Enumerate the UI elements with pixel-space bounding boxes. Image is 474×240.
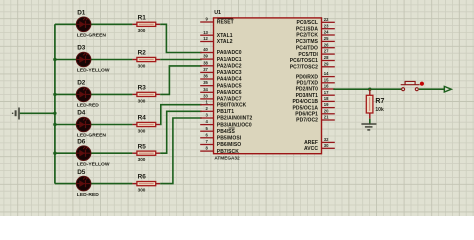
svg-text:PD5/OC1A: PD5/OC1A <box>293 105 319 111</box>
pin 33 (PA7/ADC7) <box>200 94 242 103</box>
pin 14 (PD0/RXD) <box>296 71 335 80</box>
svg-text:23: 23 <box>324 23 329 28</box>
svg-text:300: 300 <box>138 157 146 162</box>
pin 4 (PB3/AIN1/OC0) <box>200 119 252 128</box>
pin 6 (PB5/MOSI) <box>200 132 242 141</box>
svg-text:PB1/T1: PB1/T1 <box>217 109 234 115</box>
svg-text:PB5/MOSI: PB5/MOSI <box>217 136 242 142</box>
wire: R1 to chip pin <box>156 23 161 25</box>
svg-text:21: 21 <box>324 115 329 120</box>
svg-text:LED-GREEN: LED-GREEN <box>77 33 107 39</box>
wire: R7 to ground <box>369 119 371 124</box>
pin 2 (PB1/T1) <box>200 106 234 115</box>
svg-text:300: 300 <box>138 28 146 33</box>
svg-text:LED-YELLOW: LED-YELLOW <box>77 161 110 167</box>
svg-text:PA6/ADC6: PA6/ADC6 <box>217 90 242 96</box>
pin 36 (PA4/ADC4) <box>200 74 242 83</box>
svg-text:D2: D2 <box>77 80 86 87</box>
svg-text:17: 17 <box>324 90 329 95</box>
svg-text:24: 24 <box>324 30 329 35</box>
svg-text:39: 39 <box>203 54 208 59</box>
pin 39 (PA1/ADC1) <box>200 54 242 63</box>
pin 20 (PD6/ICP1) <box>295 108 335 117</box>
svg-text:PD6/ICP1: PD6/ICP1 <box>295 112 318 118</box>
svg-text:ATMEGA32: ATMEGA32 <box>214 156 240 161</box>
wire: bus to D6 anode <box>55 152 77 154</box>
wire: D3 cathode to R2 <box>90 59 132 61</box>
wire: bus to D4 anode <box>55 124 77 126</box>
pin 17 (PD3/INT1) <box>296 90 335 99</box>
wire: bus to D5 anode <box>55 183 77 185</box>
svg-text:PB0/T0/XCK: PB0/T0/XCK <box>217 102 247 108</box>
svg-text:D5: D5 <box>77 169 86 176</box>
pin 30 (AVCC) <box>304 143 335 152</box>
pin 37 (PA3/ADC3) <box>200 67 242 76</box>
svg-text:PA3/ADC3: PA3/ADC3 <box>217 70 242 76</box>
pin 32 (AREF) <box>304 137 335 146</box>
pin 34 (PA6/ADC6) <box>200 87 242 96</box>
wire: battery to bus <box>20 112 55 114</box>
svg-text:PD4/OC1B: PD4/OC1B <box>293 99 319 105</box>
svg-text:40: 40 <box>203 47 208 52</box>
svg-text:R2: R2 <box>138 50 147 57</box>
pin 40 (PA0/ADC0) <box>200 47 242 56</box>
svg-text:R4: R4 <box>138 115 147 122</box>
svg-text:RESET: RESET <box>217 20 234 26</box>
svg-text:32: 32 <box>324 137 329 142</box>
pin 7 (PB6/MISO) <box>200 139 241 148</box>
svg-text:27: 27 <box>324 49 329 54</box>
LED D2 <box>76 87 91 102</box>
resistor R1 (300) <box>137 22 156 26</box>
resistor R3 (300) <box>137 92 156 96</box>
svg-text:PC4/TDO: PC4/TDO <box>296 45 318 51</box>
wire: D4 cathode to R4 <box>90 124 132 126</box>
svg-text:PB6/MISO: PB6/MISO <box>217 142 241 148</box>
pin 21 (PD7/OC2) <box>296 115 335 124</box>
LED D1 <box>76 17 91 32</box>
svg-text:28: 28 <box>324 55 329 60</box>
svg-text:R3: R3 <box>138 85 147 92</box>
pin 26 (PC4/TDO) <box>296 42 335 51</box>
junction at R7 branch <box>368 88 371 91</box>
resistor R6 (300) <box>137 182 156 186</box>
wire: D5 cathode to R6 <box>90 183 132 185</box>
LED D4 <box>76 117 91 132</box>
svg-text:LED-RED: LED-RED <box>77 192 99 198</box>
svg-text:300: 300 <box>138 128 146 133</box>
pin 5 (PB4/SS) <box>200 126 235 135</box>
pin 9 (RESET) <box>200 17 234 26</box>
svg-text:37: 37 <box>203 67 208 72</box>
svg-text:12: 12 <box>203 36 208 41</box>
svg-text:300: 300 <box>138 98 146 103</box>
pin 29 (PC7/TOSC2) <box>290 61 335 70</box>
svg-text:300: 300 <box>138 188 146 193</box>
svg-text:R1: R1 <box>138 14 147 21</box>
svg-text:PC5/TDI: PC5/TDI <box>298 52 318 58</box>
svg-text:10k: 10k <box>375 107 384 113</box>
wire: R5 to chip pin <box>156 152 161 154</box>
svg-text:PC6/TOSC1: PC6/TOSC1 <box>290 58 318 64</box>
wire: R2 to chip pin <box>156 59 161 61</box>
svg-text:19: 19 <box>324 102 329 107</box>
svg-text:PB3/AIN1/OC0: PB3/AIN1/OC0 <box>217 122 252 128</box>
svg-text:26: 26 <box>324 42 329 47</box>
LED D5 <box>76 176 91 191</box>
svg-text:300: 300 <box>138 63 146 68</box>
svg-text:30: 30 <box>324 143 329 148</box>
svg-text:PC0/SCL: PC0/SCL <box>296 20 318 26</box>
junction on bus <box>53 123 56 126</box>
pin 13 (XTAL1) <box>200 30 233 39</box>
battery B1 (cell symbol) <box>12 108 20 120</box>
pin 1 (PB0/T0/XCK) <box>200 99 246 108</box>
svg-text:29: 29 <box>324 61 329 66</box>
svg-text:PD0/RXD: PD0/RXD <box>296 74 318 80</box>
pin 16 (PD2/INT0) <box>296 84 335 93</box>
wire: bus to D1 anode <box>55 23 77 25</box>
junction on bus <box>53 58 56 61</box>
pin 28 (PC6/TOSC1) <box>290 55 335 64</box>
svg-text:D4: D4 <box>77 110 86 117</box>
svg-text:38: 38 <box>203 60 208 65</box>
wire: D6 cathode to R5 <box>90 152 132 154</box>
svg-text:PA1/ADC1: PA1/ADC1 <box>217 57 242 63</box>
svg-text:PA4/ADC4: PA4/ADC4 <box>217 77 242 83</box>
ground <box>361 124 376 130</box>
svg-text:PC3/TMS: PC3/TMS <box>296 39 319 45</box>
pin 15 (PD1/TXD) <box>296 77 334 86</box>
junction on bus <box>53 93 56 96</box>
svg-text:22: 22 <box>324 17 329 22</box>
svg-text:D6: D6 <box>77 138 86 145</box>
wire: bus to D2 anode <box>55 93 77 95</box>
button state dot <box>420 82 424 86</box>
pin 19 (PD5/OC1A) <box>293 102 335 111</box>
pin 23 (PC1/SDA) <box>296 23 335 32</box>
wire: D2 cathode to R3 <box>90 93 132 95</box>
svg-text:13: 13 <box>203 30 208 35</box>
svg-text:25: 25 <box>324 36 329 41</box>
LED D6 <box>76 146 91 161</box>
wire: bus to D3 anode <box>55 59 77 61</box>
LED D3 <box>76 52 91 67</box>
svg-text:D3: D3 <box>77 45 86 52</box>
svg-text:36: 36 <box>203 74 208 79</box>
svg-text:XTAL2: XTAL2 <box>217 39 233 45</box>
pin 18 (PD4/OC1B) <box>293 96 335 105</box>
svg-text:PA2/ADC2: PA2/ADC2 <box>217 64 242 70</box>
svg-text:AVCC: AVCC <box>304 146 318 152</box>
svg-text:R5: R5 <box>138 143 147 150</box>
svg-text:PD2/INT0: PD2/INT0 <box>296 87 319 93</box>
wire: D1 cathode to R1 <box>90 23 132 25</box>
svg-text:R6: R6 <box>138 174 147 181</box>
svg-text:34: 34 <box>203 87 208 92</box>
svg-text:14: 14 <box>324 71 329 76</box>
svg-text:XTAL1: XTAL1 <box>217 33 233 39</box>
wire: PD2 to button net <box>333 88 401 90</box>
junction on bus <box>53 152 56 155</box>
wire: button to terminal <box>419 88 444 90</box>
svg-text:PC7/TOSC2: PC7/TOSC2 <box>290 65 318 71</box>
svg-text:20: 20 <box>324 108 329 113</box>
svg-text:18: 18 <box>324 96 329 101</box>
pin 38 (PA2/ADC2) <box>200 60 242 69</box>
pin 22 (PC0/SCL) <box>296 17 334 26</box>
resistor R7 (10k) <box>366 89 373 119</box>
wire: R4 to chip pin <box>156 124 161 126</box>
pin 35 (PA5/ADC5) <box>200 80 242 89</box>
svg-text:U1: U1 <box>214 10 221 16</box>
resistor R5 (300) <box>137 151 156 155</box>
svg-text:PD3/INT1: PD3/INT1 <box>296 93 319 99</box>
pin 24 (PC2/TCK) <box>296 30 335 39</box>
svg-text:15: 15 <box>324 77 329 82</box>
pin 12 (XTAL2) <box>200 36 233 45</box>
svg-text:PA0/ADC0: PA0/ADC0 <box>217 50 242 56</box>
resistor R4 (300) <box>137 122 156 126</box>
op-amp U1 body: ATMEGA32 <box>214 18 322 154</box>
pin 3 (PB2/AIN0/INT2) <box>200 113 252 122</box>
push button SW (momentary) <box>401 81 420 90</box>
node: off-page terminal arrow <box>444 86 451 92</box>
wire: left vertical supply bus <box>54 24 56 183</box>
svg-text:PB4/SS: PB4/SS <box>217 129 236 135</box>
junction on bus at battery row <box>53 112 56 115</box>
svg-text:R7: R7 <box>375 98 384 105</box>
svg-text:PB7/SCK: PB7/SCK <box>217 149 239 155</box>
svg-text:D1: D1 <box>77 10 86 17</box>
svg-text:PD7/OC2: PD7/OC2 <box>296 118 318 124</box>
pin 8 (PB7/SCK) <box>200 146 239 155</box>
svg-text:PD1/TXD: PD1/TXD <box>296 81 318 87</box>
svg-text:PB2/AIN0/INT2: PB2/AIN0/INT2 <box>217 116 253 122</box>
wire: R6 to chip pin <box>156 183 161 185</box>
svg-text:LED-YELLOW: LED-YELLOW <box>77 68 110 74</box>
svg-text:PA5/ADC5: PA5/ADC5 <box>217 83 242 89</box>
pin 25 (PC3/TMS) <box>296 36 335 45</box>
svg-text:16: 16 <box>324 84 329 89</box>
resistor R2 (300) <box>137 57 156 61</box>
wire: R3 to chip pin <box>156 93 161 95</box>
svg-text:LED-RED: LED-RED <box>77 103 99 109</box>
svg-text:PC1/SDA: PC1/SDA <box>296 26 318 32</box>
svg-text:33: 33 <box>203 94 208 99</box>
pin 27 (PC5/TDI) <box>298 49 334 58</box>
svg-text:PC2/TCK: PC2/TCK <box>296 33 318 39</box>
svg-text:35: 35 <box>203 80 208 85</box>
